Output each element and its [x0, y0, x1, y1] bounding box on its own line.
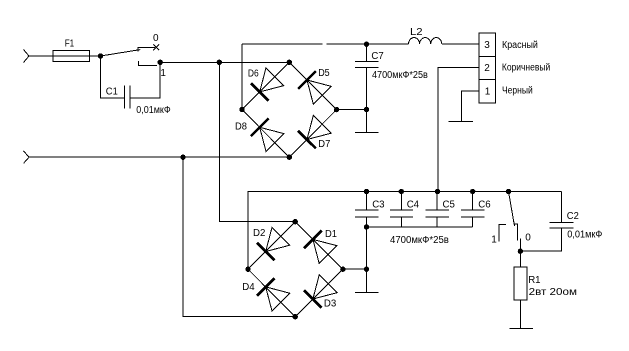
wire bridge1 right to C7 — [337, 109, 367, 111]
svg-text:D3: D3 — [324, 298, 337, 309]
node bridge2 top — [293, 219, 298, 224]
input terminal bottom — [24, 151, 30, 164]
diode D5 — [298, 71, 331, 104]
wire bridge2 right to minus node — [343, 268, 367, 270]
svg-text:4700мкФ*25в: 4700мкФ*25в — [372, 70, 428, 81]
wire input2 to bridge1 bottom — [29, 156, 289, 158]
capacitor C3 — [355, 192, 378, 227]
svg-text:3: 3 — [484, 40, 490, 51]
svg-text:0,01мкФ: 0,01мкФ — [136, 105, 171, 116]
wire L2 to connector — [442, 43, 479, 45]
diode D3 — [304, 275, 337, 308]
svg-text:C6: C6 — [478, 200, 491, 211]
node bridge2 minus — [364, 267, 369, 272]
svg-text:0,01мкФ: 0,01мкФ — [567, 230, 603, 241]
svg-text:R1: R1 — [528, 275, 541, 286]
ground R1 — [509, 300, 533, 329]
svg-text:D6: D6 — [248, 68, 259, 79]
wire top rail segment 1 — [242, 43, 322, 45]
switch contact 0 — [138, 47, 155, 51]
svg-text:Коричневый: Коричневый — [502, 62, 550, 73]
bridge 2 diamond wires — [248, 222, 343, 317]
switch S2 contact 1 — [499, 225, 506, 242]
svg-text:C1: C1 — [106, 87, 118, 98]
ground bridge2 — [355, 269, 379, 292]
wire bridge2 plus to bus — [248, 192, 561, 270]
node bridge1 bottom — [287, 155, 292, 160]
node bridge1 right — [334, 107, 339, 112]
node bridge2 left — [245, 267, 250, 272]
diode D1 — [304, 231, 337, 264]
ground pin1 — [449, 121, 473, 123]
svg-text:C4: C4 — [407, 200, 420, 211]
wire C1 left leg — [101, 56, 125, 98]
switch S2 contact 0 — [514, 224, 517, 241]
wire C2 bottom leg — [520, 228, 561, 251]
inductor L2 — [409, 38, 442, 45]
diode D6 — [251, 68, 284, 101]
switch open mark X — [153, 44, 159, 50]
ground under C7 — [355, 110, 378, 133]
svg-text:2: 2 — [484, 63, 490, 74]
node bus C5 — [435, 189, 440, 194]
diode D8 — [251, 119, 284, 152]
input terminal top — [24, 50, 30, 63]
node input2 split — [180, 155, 185, 160]
switch S2 arm — [509, 192, 515, 226]
wire contact 0 to node — [519, 239, 521, 252]
svg-text:Черный: Черный — [502, 86, 533, 97]
resistor R1 — [514, 251, 527, 300]
svg-text:C5: C5 — [443, 200, 456, 211]
node caps bottom — [364, 224, 369, 229]
node bus C6 — [470, 189, 475, 194]
wire bridge1 plus rail — [241, 44, 243, 109]
svg-text:D1: D1 — [325, 229, 337, 240]
svg-text:1: 1 — [160, 68, 166, 79]
diode D7 — [298, 115, 331, 148]
svg-text:1: 1 — [485, 87, 491, 98]
node AC tap — [217, 60, 222, 65]
node bridge1 left — [239, 107, 244, 112]
node bridge2 bottom — [293, 314, 298, 319]
wire input to F1 — [29, 55, 101, 57]
node after fuse — [98, 53, 103, 58]
capacitor C5 — [426, 192, 449, 227]
capacitor C4 — [390, 192, 413, 227]
svg-text:D7: D7 — [318, 139, 330, 150]
node switch output — [158, 60, 163, 65]
node bridge1 top — [287, 60, 292, 65]
svg-text:D5: D5 — [318, 68, 330, 79]
node bus switch — [506, 189, 511, 194]
svg-text:C2: C2 — [567, 211, 579, 222]
wire caps bottom bus — [367, 226, 473, 228]
node bridge1 minus — [364, 107, 369, 112]
svg-text:C7: C7 — [371, 51, 384, 62]
wire C1 right leg — [130, 62, 160, 98]
wire pin2 to bus — [438, 67, 479, 191]
node C7 top — [364, 42, 369, 47]
diode D4 — [257, 278, 290, 311]
wire pin1 to ground — [462, 91, 480, 122]
connector X1 body — [479, 33, 496, 103]
node bridge2 right — [340, 267, 345, 272]
svg-text:L2: L2 — [410, 27, 423, 38]
svg-text:4700мкФ*25в: 4700мкФ*25в — [390, 235, 449, 246]
capacitor C7 — [355, 44, 379, 109]
fuse F1 — [53, 50, 90, 61]
capacitor C6 — [461, 192, 484, 227]
diode D2 — [257, 227, 290, 260]
capacitor C2 — [549, 192, 573, 228]
svg-text:1: 1 — [491, 235, 497, 246]
svg-text:0: 0 — [525, 232, 531, 243]
svg-text:D8: D8 — [235, 121, 247, 132]
bridge 1 diamond wires — [242, 62, 337, 157]
svg-text:Красный: Красный — [502, 40, 538, 51]
svg-text:2вт 20ом: 2вт 20ом — [529, 287, 578, 298]
wire AC tap to bridge2 top — [219, 62, 295, 221]
svg-text:C3: C3 — [372, 200, 385, 211]
wire caps bottom to minus node — [366, 227, 368, 269]
wire down to bridge2 bottom — [183, 157, 295, 317]
wire switch to bridge top — [160, 61, 289, 63]
svg-text:0: 0 — [153, 33, 159, 44]
node R1 top — [518, 249, 523, 254]
node bus C3 — [364, 189, 369, 194]
switch S1 arm — [101, 50, 141, 56]
switch contact 1 — [139, 61, 158, 66]
svg-text:D4: D4 — [242, 282, 255, 293]
wire top rail segment 2 — [327, 43, 409, 45]
node bus C4 — [399, 189, 404, 194]
svg-text:D2: D2 — [253, 228, 266, 239]
svg-text:F1: F1 — [65, 38, 75, 49]
capacitor C1 — [125, 86, 130, 109]
